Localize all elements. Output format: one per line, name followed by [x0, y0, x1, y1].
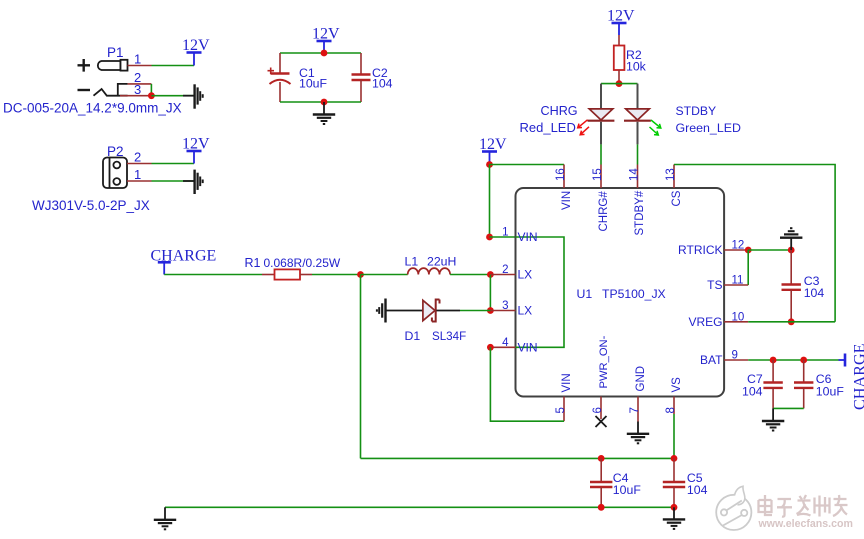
- pin 8 stub: [673, 397, 675, 415]
- LED CHRG (red): [588, 84, 615, 165]
- svg-text:1: 1: [134, 167, 141, 182]
- pin 10 stub: [724, 321, 748, 323]
- wire pin12 down to TS: [747, 250, 749, 285]
- connector P1 minus mark: [78, 89, 91, 91]
- svg-text:22uH: 22uH: [427, 255, 456, 269]
- power port 12V (R2): [607, 8, 635, 36]
- svg-text:CHRG: CHRG: [541, 104, 578, 118]
- svg-text:12V: 12V: [607, 8, 635, 25]
- power port 12V (P1): [182, 37, 210, 66]
- svg-text:GND: GND: [635, 366, 647, 392]
- svg-text:14: 14: [629, 168, 641, 181]
- ground (D1 anode): [377, 299, 386, 323]
- watermark chinese glyphs (drawn): [759, 495, 848, 517]
- wire junction down to bottom rail: [360, 275, 362, 459]
- svg-text:10: 10: [732, 311, 745, 323]
- diode D1 (schottky): [423, 300, 460, 322]
- svg-text:5: 5: [555, 407, 567, 413]
- svg-text:PWR_ON-: PWR_ON-: [598, 335, 610, 388]
- wire D1 to pin3: [460, 310, 490, 312]
- svg-text:12: 12: [732, 240, 745, 252]
- svg-text:12V: 12V: [182, 136, 210, 153]
- svg-text:VIN: VIN: [561, 373, 573, 392]
- svg-text:10uF: 10uF: [299, 77, 328, 91]
- pin 1 stub P2: [127, 180, 152, 182]
- junction pin3: [487, 307, 494, 314]
- wire pin12 to C3: [748, 249, 791, 251]
- connector P1 switch contact: [94, 89, 128, 96]
- pin 15 stub: [600, 165, 602, 189]
- wire L1 to pin2: [450, 274, 490, 276]
- capacitor C1: [268, 53, 291, 102]
- svg-text:13: 13: [665, 168, 677, 181]
- svg-text:U1: U1: [577, 287, 593, 301]
- junction pin4: [487, 344, 494, 351]
- pin 4 stub: [490, 346, 515, 348]
- svg-text:10uF: 10uF: [613, 483, 642, 497]
- LED CHRG arrows (red): [578, 120, 589, 135]
- pin 11 stub: [724, 284, 748, 286]
- inductor L1: [408, 268, 450, 274]
- junction C1C2 top: [321, 50, 328, 57]
- wire R1 to junction: [312, 274, 361, 276]
- svg-text:3: 3: [502, 300, 508, 312]
- ground (P1 sleeve): [183, 84, 203, 108]
- svg-text:10uF: 10uF: [816, 385, 845, 399]
- connector P1 ring contact: [118, 84, 128, 96]
- svg-text:TS: TS: [707, 278, 722, 292]
- capacitor C7: [763, 360, 782, 408]
- wire lower rail: [165, 506, 674, 508]
- svg-text:11: 11: [732, 275, 744, 287]
- wire BAT row: [748, 359, 838, 361]
- svg-text:1: 1: [134, 52, 141, 67]
- ground (C1/C2): [313, 102, 335, 124]
- pin 3 stub P1: [120, 95, 151, 97]
- junction R2/LEDs: [616, 80, 623, 87]
- pin 9 stub: [724, 359, 748, 361]
- LED STDBY (green): [624, 84, 651, 165]
- wire to ground (P1): [151, 95, 194, 97]
- svg-text:L1: L1: [405, 255, 419, 269]
- svg-text:104: 104: [804, 286, 825, 300]
- svg-text:CHRG#: CHRG#: [598, 191, 610, 232]
- svg-text:SL34F: SL34F: [432, 330, 466, 343]
- svg-text:WJ301V-5.0-2P_JX: WJ301V-5.0-2P_JX: [32, 198, 150, 213]
- svg-text:STDBY#: STDBY#: [634, 190, 646, 235]
- junction C5 bottom: [671, 504, 678, 511]
- pin 6 stub: [600, 397, 602, 420]
- svg-text:12V: 12V: [182, 37, 210, 54]
- power port CHARGE (left): [151, 248, 217, 275]
- wire pin4 to pin5: [490, 347, 564, 421]
- svg-text:RTRICK: RTRICK: [678, 243, 722, 257]
- connector P1 barrel graphic: [98, 60, 128, 71]
- wire junction to L1: [361, 274, 408, 276]
- ground (C3, pointing up): [780, 228, 802, 250]
- wire pin1 into chip: [490, 236, 516, 238]
- svg-text:104: 104: [372, 77, 393, 91]
- pin 5 stub: [563, 397, 565, 422]
- ground (C7/C6): [762, 408, 784, 430]
- svg-text:4: 4: [502, 337, 509, 349]
- svg-text:VIN: VIN: [518, 230, 538, 244]
- pin 13 stub: [673, 165, 675, 189]
- svg-text:8: 8: [665, 407, 677, 413]
- svg-text:1: 1: [502, 227, 508, 239]
- junction C3 bottom / VREG: [788, 318, 795, 325]
- wire upper rail: [361, 457, 675, 459]
- ground (rail left end): [154, 507, 176, 529]
- svg-text:12V: 12V: [479, 136, 507, 153]
- svg-text:VREG: VREG: [688, 315, 722, 329]
- junction C6 top: [800, 357, 807, 364]
- svg-text:16: 16: [555, 168, 567, 181]
- svg-text:STDBY: STDBY: [676, 104, 717, 118]
- junction pin12: [745, 247, 752, 254]
- pin 7 stub: [637, 397, 639, 422]
- svg-text:CS: CS: [671, 190, 683, 206]
- ground (pin 7): [627, 422, 649, 444]
- svg-text:2: 2: [134, 150, 141, 165]
- svg-text:www.elecfans.com: www.elecfans.com: [758, 518, 853, 530]
- svg-text:3: 3: [134, 82, 141, 97]
- svg-text:6: 6: [592, 407, 604, 413]
- pin 14 stub: [637, 165, 639, 189]
- junction C4 top: [598, 455, 605, 462]
- svg-text:Red_LED: Red_LED: [520, 120, 576, 135]
- svg-text:0.068R/0.25W: 0.068R/0.25W: [264, 256, 341, 270]
- svg-text:9: 9: [732, 350, 738, 362]
- svg-text:12V: 12V: [312, 26, 340, 43]
- svg-text:VS: VS: [671, 377, 683, 393]
- svg-text:R1: R1: [245, 256, 261, 270]
- svg-text:15: 15: [592, 168, 604, 181]
- capacitor C5: [663, 458, 685, 507]
- no-connect X (pin 6): [596, 416, 607, 427]
- capacitor C6: [794, 360, 813, 408]
- pin 2 stub P1: [128, 83, 152, 85]
- power port 12V (chip VIN): [479, 136, 507, 165]
- ground (C5 bottom): [663, 507, 685, 529]
- capacitor C4: [590, 458, 612, 507]
- junction C3 top: [788, 247, 795, 254]
- svg-text:2: 2: [502, 264, 508, 276]
- wire CHARGE to R1: [164, 274, 262, 276]
- junction P1 pins 2-3: [148, 92, 155, 99]
- power port CHARGE (right): [839, 343, 864, 410]
- pin 16 stub: [563, 165, 565, 189]
- wire C1-C2 bottom: [280, 101, 361, 103]
- svg-text:P1: P1: [107, 45, 124, 60]
- svg-text:LX: LX: [518, 304, 533, 318]
- resistor R2: [614, 35, 625, 84]
- junction pin2: [487, 271, 494, 278]
- wire VIN internal pin1-pin4: [516, 237, 565, 347]
- junction R1/L1/rail: [357, 271, 364, 278]
- connector P1 plus mark: [78, 59, 91, 72]
- junction pin1: [486, 234, 493, 241]
- junction C4 bottom: [598, 504, 605, 511]
- wire ground to D1: [386, 310, 423, 312]
- svg-text:TP5100_JX: TP5100_JX: [602, 287, 666, 301]
- svg-text:VIN: VIN: [518, 340, 538, 354]
- wire P2 pin2 to 12V: [152, 163, 195, 165]
- op-amp U1 chip body: [516, 188, 725, 397]
- svg-text:10k: 10k: [626, 60, 647, 74]
- svg-text:7: 7: [629, 407, 641, 413]
- svg-text:BAT: BAT: [700, 353, 723, 367]
- wire pin2 to pin3: [489, 275, 491, 311]
- ground (P2): [183, 170, 203, 194]
- wire C7-C6 bottom: [773, 407, 804, 409]
- watermark logo circle: [716, 486, 751, 530]
- junction C1C2 bottom: [321, 99, 328, 106]
- svg-text:Green_LED: Green_LED: [676, 121, 741, 135]
- svg-text:CHARGE: CHARGE: [851, 343, 864, 410]
- resistor R1: [262, 269, 312, 279]
- svg-text:VIN: VIN: [561, 191, 573, 210]
- wire 12V to pin16: [490, 164, 565, 166]
- svg-text:104: 104: [742, 385, 763, 399]
- wire pin8 down: [673, 414, 675, 458]
- svg-text:LX: LX: [518, 268, 533, 282]
- junction pin8/C5 top: [671, 455, 678, 462]
- connector P2 body: [103, 158, 127, 189]
- wire VREG row: [748, 321, 835, 323]
- pin 2 stub: [490, 274, 515, 276]
- capacitor C2: [352, 53, 371, 102]
- power port 12V (C1/C2): [312, 26, 340, 54]
- pin 2 stub P2: [127, 163, 152, 165]
- svg-text:104: 104: [687, 483, 708, 497]
- pin 1 stub P1: [128, 65, 152, 67]
- wire 12V down to pin1: [489, 165, 491, 238]
- capacitor C3: [782, 250, 801, 322]
- power port 12V (P2): [182, 136, 210, 164]
- wire P1 pin1 to 12V: [152, 65, 195, 67]
- pin 12 stub: [724, 249, 748, 251]
- wire P2 pin1 to ground: [152, 180, 195, 182]
- wire pin2 to pin3 corner: [150, 84, 152, 96]
- pin 3 stub: [490, 310, 515, 312]
- LED STDBY arrows (green): [650, 120, 661, 135]
- wire CS net: [674, 165, 835, 322]
- junction 12V/pin16/pin1: [486, 161, 493, 168]
- junction C7 top: [770, 357, 777, 364]
- wire LED tops: [601, 83, 638, 85]
- svg-text:DC-005-20A_14.2*9.0mm_JX: DC-005-20A_14.2*9.0mm_JX: [3, 101, 182, 116]
- svg-text:D1: D1: [405, 329, 421, 343]
- wire C1-C2 top: [280, 52, 361, 54]
